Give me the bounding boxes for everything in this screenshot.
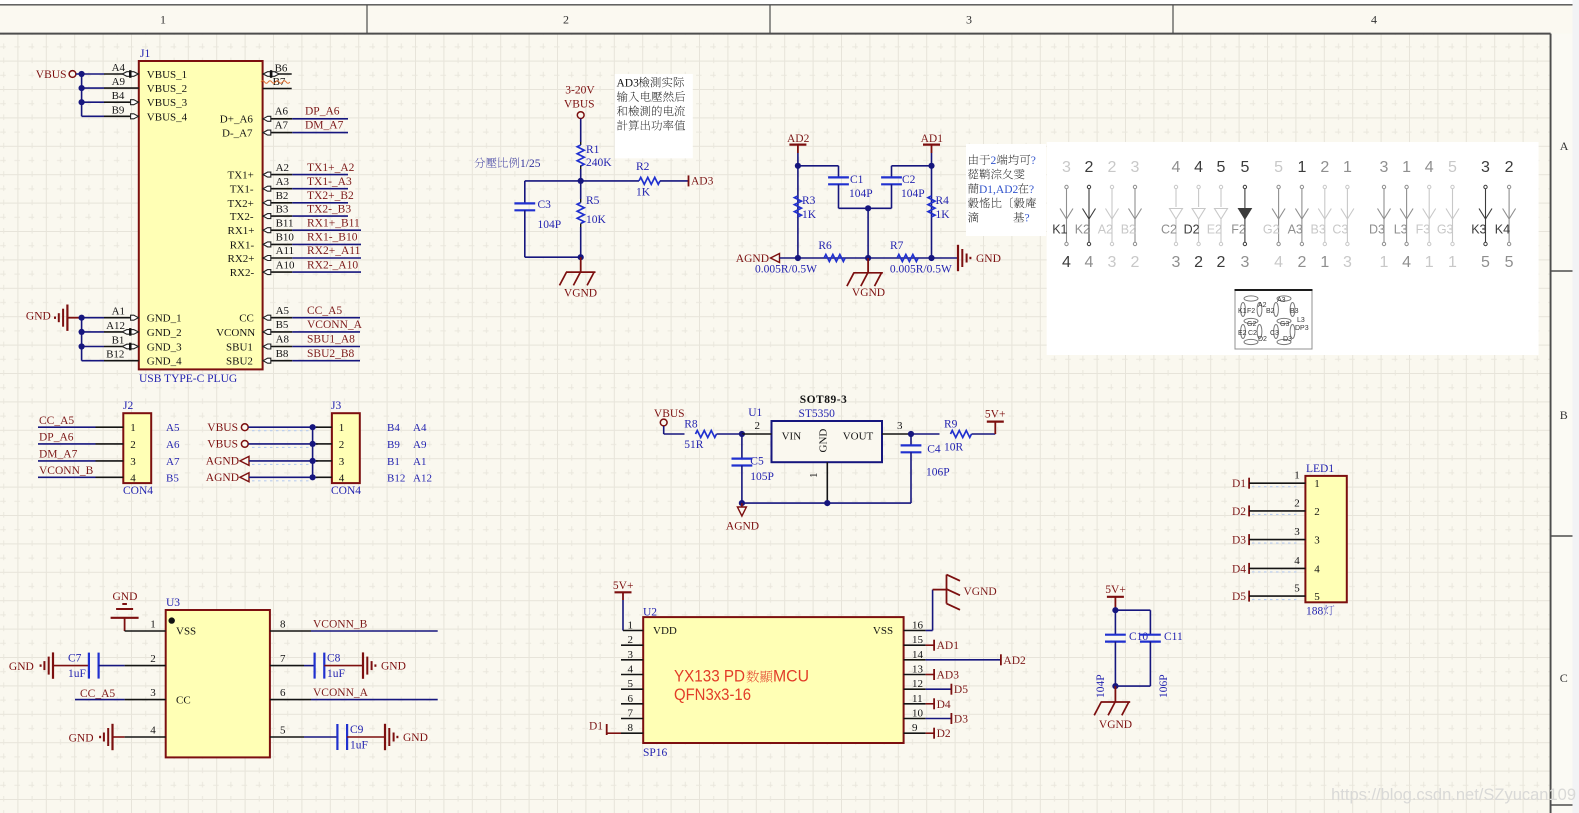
svg-text:A7: A7 xyxy=(275,119,289,131)
net label SBU1_A8 xyxy=(292,346,360,348)
svg-text:D5: D5 xyxy=(954,684,968,696)
wire VSS to VGND xyxy=(926,630,933,632)
svg-text:CC: CC xyxy=(239,313,254,325)
svg-text:R5: R5 xyxy=(586,195,600,207)
port D2 (U2) xyxy=(926,732,935,734)
svg-text:10R: 10R xyxy=(944,442,964,454)
pin J2.4 net VCONN_B xyxy=(38,476,96,478)
svg-text:1: 1 xyxy=(1320,254,1329,271)
svg-text:1: 1 xyxy=(160,13,166,27)
svg-text:C1: C1 xyxy=(850,174,864,186)
svg-text:9: 9 xyxy=(912,722,918,734)
svg-text:VGND: VGND xyxy=(852,287,885,299)
svg-text:C5: C5 xyxy=(750,456,764,468)
pin U3.4 xyxy=(125,736,166,738)
svg-text:3: 3 xyxy=(1131,159,1140,176)
svg-text:B2: B2 xyxy=(1266,308,1275,315)
svg-text:A11: A11 xyxy=(276,245,295,257)
svg-text:4: 4 xyxy=(339,472,345,484)
svg-text:2: 2 xyxy=(755,420,761,432)
svg-text:AD2: AD2 xyxy=(1003,655,1026,667)
svg-text:5: 5 xyxy=(1240,159,1249,176)
pin U3.1 xyxy=(125,630,166,632)
net label RX1-_B10 xyxy=(292,243,361,245)
svg-text:3: 3 xyxy=(1481,159,1490,176)
svg-text:B2: B2 xyxy=(1121,223,1136,237)
ground VGND (divider) xyxy=(580,257,582,272)
svg-text:VBUS_1: VBUS_1 xyxy=(147,69,187,81)
svg-text:CC: CC xyxy=(176,695,191,707)
net label VCONN_A xyxy=(292,331,360,333)
svg-text:AD3: AD3 xyxy=(691,176,714,188)
svg-text:3: 3 xyxy=(339,456,345,468)
svg-text:GND: GND xyxy=(26,311,51,323)
svg-text:D4: D4 xyxy=(1232,563,1246,575)
svg-text:1K: 1K xyxy=(636,187,651,199)
svg-text:K1: K1 xyxy=(1238,308,1247,315)
7-seg digit sketch xyxy=(1241,296,1262,345)
pin B7 (with error squiggle) xyxy=(263,88,292,90)
svg-text:K2: K2 xyxy=(1075,223,1090,237)
svg-text:106P: 106P xyxy=(1158,674,1170,698)
svg-text:1uF: 1uF xyxy=(327,668,345,680)
IC U3 body xyxy=(166,610,270,757)
top margin strip xyxy=(0,0,1579,5)
U3 pin1 dot marker xyxy=(169,617,175,623)
ruler dividers xyxy=(366,5,368,34)
svg-text:1K: 1K xyxy=(802,209,817,221)
svg-text:2: 2 xyxy=(1320,159,1329,176)
net label TX1+_A2 xyxy=(292,174,348,176)
svg-text:B11: B11 xyxy=(276,217,294,229)
svg-text:TX1-_A3: TX1-_A3 xyxy=(307,176,352,188)
svg-text:R2: R2 xyxy=(636,161,650,173)
resistor R9 xyxy=(951,431,972,438)
svg-text:D1,AD2: D1,AD2 xyxy=(979,184,1019,196)
net label TX2-_B3 xyxy=(292,215,348,217)
svg-text:A: A xyxy=(1560,139,1569,153)
svg-text:SBU2: SBU2 xyxy=(226,356,253,368)
svg-text:1K: 1K xyxy=(936,209,951,221)
svg-text:B2: B2 xyxy=(276,190,289,202)
svg-text:RX1-: RX1- xyxy=(230,239,255,251)
svg-text:GND_4: GND_4 xyxy=(147,356,182,368)
pin U2.14 xyxy=(904,659,926,661)
svg-text:3-20V: 3-20V xyxy=(565,85,595,97)
capacitor C3 xyxy=(524,181,526,204)
svg-text:11: 11 xyxy=(912,693,923,705)
svg-text:51R: 51R xyxy=(684,439,704,451)
svg-text:GND: GND xyxy=(403,732,428,744)
svg-text:D3: D3 xyxy=(954,714,968,726)
svg-text:G2: G2 xyxy=(1263,223,1280,237)
port D4 (U2) xyxy=(926,703,935,705)
svg-text:8: 8 xyxy=(628,722,634,734)
svg-text:7: 7 xyxy=(628,708,634,720)
white panel (faded LED array) xyxy=(1047,142,1539,355)
svg-text:3: 3 xyxy=(1062,159,1071,176)
svg-text:4: 4 xyxy=(1194,159,1203,176)
svg-text:7: 7 xyxy=(280,653,286,665)
svg-text:15: 15 xyxy=(912,634,924,646)
svg-text:1: 1 xyxy=(1297,159,1306,176)
net label CC_A5 xyxy=(292,317,360,319)
svg-text:1: 1 xyxy=(150,619,156,631)
svg-text:SBU2_B8: SBU2_B8 xyxy=(307,348,355,360)
ground VGND (caps) xyxy=(1114,686,1116,702)
svg-text:AD2: AD2 xyxy=(787,133,810,145)
svg-text:3: 3 xyxy=(1380,159,1389,176)
svg-text:C7: C7 xyxy=(68,653,82,665)
svg-text:DM_A7: DM_A7 xyxy=(39,449,78,461)
svg-text:?: ? xyxy=(1031,155,1036,167)
svg-text:SBU1: SBU1 xyxy=(226,342,253,354)
svg-text:A6: A6 xyxy=(166,439,180,451)
svg-text:1: 1 xyxy=(1314,478,1320,490)
svg-text:J1: J1 xyxy=(140,48,150,60)
svg-text:A12: A12 xyxy=(413,472,432,484)
svg-text:VBUS: VBUS xyxy=(36,69,67,81)
svg-text:G3: G3 xyxy=(1437,223,1454,237)
svg-text:10K: 10K xyxy=(586,214,607,226)
svg-text:3: 3 xyxy=(628,649,634,661)
junction xyxy=(310,441,316,447)
wire GND bus xyxy=(67,317,81,319)
svg-text:L3: L3 xyxy=(1297,317,1305,324)
svg-text:4: 4 xyxy=(1294,555,1300,567)
pin GND_3 J1.B1 xyxy=(82,346,104,348)
pin J2.1 net CC_A5 xyxy=(38,426,96,428)
svg-text:U3: U3 xyxy=(166,597,180,609)
svg-text:D1: D1 xyxy=(589,721,603,733)
svg-text:A5: A5 xyxy=(166,422,180,434)
svg-text:2: 2 xyxy=(1297,254,1306,271)
svg-text:VBUS: VBUS xyxy=(654,408,685,420)
svg-text:5: 5 xyxy=(1481,254,1490,271)
svg-text:104P: 104P xyxy=(1095,674,1107,698)
pin VBUS_3 J1.B4 xyxy=(82,101,104,103)
svg-text:VBUS_4: VBUS_4 xyxy=(147,111,188,123)
svg-text:GND: GND xyxy=(69,733,94,745)
svg-text:5V+: 5V+ xyxy=(613,580,634,592)
svg-text:2: 2 xyxy=(339,439,345,451)
svg-text:104P: 104P xyxy=(849,188,873,200)
pin U3.6 / net VCONN_A xyxy=(270,699,311,701)
svg-text:B9: B9 xyxy=(387,439,400,451)
regulator U1 body xyxy=(772,421,883,462)
svg-text:GND: GND xyxy=(9,661,34,673)
svg-text:VCONN_A: VCONN_A xyxy=(313,687,369,699)
svg-text:https://blog.csdn.net/SZyucan1: https://blog.csdn.net/SZyucan109 xyxy=(1331,786,1576,804)
svg-text:2: 2 xyxy=(150,653,156,665)
bottom rail xyxy=(780,257,959,259)
svg-text:YX133 PD: YX133 PD xyxy=(674,667,745,686)
svg-text:1: 1 xyxy=(1402,159,1411,176)
svg-text:106P: 106P xyxy=(926,466,950,478)
svg-text:SBU1_A8: SBU1_A8 xyxy=(307,334,355,346)
resistor R7 xyxy=(897,255,918,262)
svg-text:RX2+: RX2+ xyxy=(228,253,255,265)
svg-text:VGND: VGND xyxy=(564,288,597,300)
svg-text:A10: A10 xyxy=(276,259,295,271)
svg-text:D1: D1 xyxy=(1232,478,1246,490)
pin3 / C4 xyxy=(882,433,911,435)
svg-text:4: 4 xyxy=(1314,563,1320,575)
svg-text:B12: B12 xyxy=(106,349,124,361)
note box (AD3...) xyxy=(615,74,693,158)
wire to pin2 xyxy=(717,433,742,435)
svg-text:3: 3 xyxy=(150,687,156,699)
svg-text:240K: 240K xyxy=(586,157,612,169)
zone separators xyxy=(1551,270,1579,272)
right margin xyxy=(1552,34,1579,813)
right edge strip xyxy=(1573,0,1579,813)
svg-text:5: 5 xyxy=(1217,159,1226,176)
junction xyxy=(79,315,85,321)
svg-text:3: 3 xyxy=(1108,254,1117,271)
capacitor C11 xyxy=(1115,609,1150,611)
svg-text:C8: C8 xyxy=(327,653,341,665)
svg-text:F3: F3 xyxy=(1416,223,1431,237)
svg-text:SP16: SP16 xyxy=(643,747,668,759)
svg-text:CC_A5: CC_A5 xyxy=(80,688,115,700)
port AD3 (U2) xyxy=(926,674,935,676)
svg-text:DM_A7: DM_A7 xyxy=(305,119,344,131)
svg-text:F2: F2 xyxy=(1247,308,1255,315)
pin U2.5 xyxy=(621,688,643,690)
svg-text:RX1-_B10: RX1-_B10 xyxy=(307,232,358,244)
svg-text:VIN: VIN xyxy=(782,430,802,442)
junction xyxy=(1112,683,1118,689)
svg-text:VGND: VGND xyxy=(1099,719,1132,731)
svg-text:B10: B10 xyxy=(276,232,295,244)
svg-text:C3: C3 xyxy=(1270,330,1279,337)
svg-text:AGND: AGND xyxy=(206,456,239,468)
svg-text:G3: G3 xyxy=(1280,321,1289,328)
svg-text:2: 2 xyxy=(563,13,569,27)
svg-text:B5: B5 xyxy=(276,319,289,331)
svg-text:F2: F2 xyxy=(1231,223,1246,237)
7-seg tiny labels xyxy=(1238,297,1309,343)
svg-text:B4: B4 xyxy=(112,90,125,102)
pin GND_4 J1.B12 xyxy=(82,360,104,362)
port AD2 (U2) xyxy=(926,659,1001,661)
svg-text:C11: C11 xyxy=(1164,631,1183,643)
sheet border xyxy=(0,33,1551,35)
svg-text:CON4: CON4 xyxy=(331,485,361,497)
svg-text:5: 5 xyxy=(1274,159,1283,176)
svg-text:VBUS_2: VBUS_2 xyxy=(147,83,187,95)
svg-text:B6: B6 xyxy=(275,63,288,75)
svg-text:105P: 105P xyxy=(750,471,774,483)
svg-text:188: 188 xyxy=(1306,606,1324,618)
svg-text:?: ? xyxy=(1025,213,1030,225)
svg-text:VBUS_3: VBUS_3 xyxy=(147,97,188,109)
svg-text:R3: R3 xyxy=(802,195,816,207)
svg-text:GND_2: GND_2 xyxy=(147,327,182,339)
svg-text:?: ? xyxy=(1029,184,1034,196)
svg-text:3: 3 xyxy=(897,420,903,432)
MCU U2 body xyxy=(643,617,903,743)
svg-text:J2: J2 xyxy=(123,400,133,412)
svg-text:2: 2 xyxy=(1194,254,1203,271)
wire xyxy=(931,145,933,153)
svg-text:3: 3 xyxy=(1314,535,1320,547)
svg-text:2: 2 xyxy=(1505,159,1514,176)
pin U2.13 xyxy=(904,674,926,676)
svg-text:B5: B5 xyxy=(166,472,179,484)
resistor R8 xyxy=(696,431,717,438)
svg-text:J3: J3 xyxy=(331,400,341,412)
svg-text:6: 6 xyxy=(628,693,634,705)
svg-text:4: 4 xyxy=(130,472,136,484)
svg-text:C: C xyxy=(1560,671,1568,685)
capacitor C1 xyxy=(798,165,839,167)
pin GND_1 J1.A1 xyxy=(104,317,139,319)
svg-text:TX2-_B3: TX2-_B3 xyxy=(307,203,351,215)
connector J2 body xyxy=(123,413,151,483)
pin U2.9 xyxy=(904,732,926,734)
svg-text:4: 4 xyxy=(150,725,156,737)
wire xyxy=(580,119,582,142)
svg-text:DP_A6: DP_A6 xyxy=(39,432,74,444)
svg-text:3: 3 xyxy=(130,456,136,468)
svg-text:R8: R8 xyxy=(684,418,698,430)
port AD3 xyxy=(688,175,690,186)
svg-text:D4: D4 xyxy=(937,699,951,711)
pin U2.16 xyxy=(904,630,926,632)
U1 GND pin xyxy=(826,462,828,503)
junction xyxy=(79,329,85,335)
7-seg digit sketch xyxy=(1274,296,1295,345)
junction xyxy=(79,85,85,91)
pin U2.3 xyxy=(621,659,643,661)
svg-text:B: B xyxy=(1560,408,1568,422)
svg-text:TX2+: TX2+ xyxy=(228,198,254,210)
capacitor C5 xyxy=(741,434,743,459)
svg-text:K3: K3 xyxy=(1471,223,1486,237)
svg-text:GND: GND xyxy=(113,591,138,603)
svg-text:5V+: 5V+ xyxy=(985,409,1006,421)
junction xyxy=(79,99,85,105)
svg-text:C2: C2 xyxy=(902,174,916,186)
svg-text:AD3: AD3 xyxy=(937,670,960,682)
svg-text:A2: A2 xyxy=(276,162,289,174)
port D5 (U2) xyxy=(926,688,952,690)
svg-text:DP_A6: DP_A6 xyxy=(305,106,340,118)
resistor R5 xyxy=(577,203,584,224)
pin U2.8 xyxy=(621,732,643,734)
pin GND_2 J1.A12 xyxy=(82,331,104,333)
svg-text:A3: A3 xyxy=(1288,223,1303,237)
svg-text:D+_A6: D+_A6 xyxy=(220,114,254,126)
capacitor C10 xyxy=(1112,607,1118,613)
svg-text:TX1+: TX1+ xyxy=(228,170,254,182)
svg-text:5: 5 xyxy=(1448,159,1457,176)
svg-text:RX1+_B11: RX1+_B11 xyxy=(307,217,360,229)
svg-text:2: 2 xyxy=(1131,254,1140,271)
capacitor C2 xyxy=(892,165,932,167)
pin U3.2 xyxy=(125,665,166,667)
connector J3 body xyxy=(332,413,360,483)
pin U2.2 xyxy=(621,644,643,646)
svg-text:D3: D3 xyxy=(1232,535,1246,547)
7-segment reference box xyxy=(1235,290,1312,349)
note box (garbled) xyxy=(966,144,1046,236)
svg-text:D2: D2 xyxy=(1232,506,1246,518)
svg-text:A2: A2 xyxy=(1098,223,1113,237)
svg-text:VSS: VSS xyxy=(176,626,196,638)
pin U2.7 xyxy=(621,718,643,720)
svg-text:B1: B1 xyxy=(112,335,125,347)
label 分压比例1/25 xyxy=(474,157,485,167)
svg-text:D3: D3 xyxy=(1283,336,1292,343)
svg-text:8: 8 xyxy=(280,619,286,631)
pin J2.3 net DM_A7 xyxy=(38,460,96,462)
svg-text:5: 5 xyxy=(280,725,286,737)
net label RX1+_B11 xyxy=(292,229,361,231)
svg-text:A1: A1 xyxy=(112,306,125,318)
svg-text:A9: A9 xyxy=(413,439,427,451)
svg-text:1: 1 xyxy=(1448,254,1457,271)
svg-text:USB TYPE-C PLUG: USB TYPE-C PLUG xyxy=(139,373,237,385)
svg-text:A1: A1 xyxy=(413,456,426,468)
net label TX1-_A3 xyxy=(292,188,348,190)
pin U3.8 / net VCONN_B xyxy=(270,630,311,632)
resistor R6 xyxy=(824,255,845,262)
svg-text:5: 5 xyxy=(1505,254,1514,271)
svg-text:B3: B3 xyxy=(276,203,289,215)
svg-text:C3: C3 xyxy=(538,199,552,211)
svg-text:A8: A8 xyxy=(276,334,290,346)
power port 5V+ (U1) xyxy=(972,433,996,435)
svg-text:GND: GND xyxy=(818,429,830,453)
svg-text:1uF: 1uF xyxy=(68,668,86,680)
svg-text:D2: D2 xyxy=(1184,223,1200,237)
svg-text:TX2-: TX2- xyxy=(230,211,254,223)
wire to R9 xyxy=(911,433,940,435)
svg-text:1: 1 xyxy=(808,473,820,479)
svg-text:TX1-: TX1- xyxy=(230,184,254,196)
junction xyxy=(310,424,316,430)
svg-text:13: 13 xyxy=(912,664,924,676)
net label RX2+_A11 xyxy=(292,257,361,259)
svg-text:5V+: 5V+ xyxy=(1105,584,1126,596)
svg-text:4: 4 xyxy=(1371,13,1377,27)
wire xyxy=(663,426,665,434)
power port GND (sense) xyxy=(957,245,959,271)
svg-text:CON4: CON4 xyxy=(123,485,153,497)
wire xyxy=(797,145,799,153)
connector J1 body xyxy=(139,61,263,369)
svg-text:G2: G2 xyxy=(1247,321,1256,328)
port D3 (U2) xyxy=(926,718,952,720)
svg-text:0.005R/0.5W: 0.005R/0.5W xyxy=(755,264,817,276)
svg-text:VCONN_A: VCONN_A xyxy=(307,319,363,331)
svg-text:1: 1 xyxy=(1425,254,1434,271)
svg-text:C4: C4 xyxy=(927,444,941,456)
svg-text:L3: L3 xyxy=(1394,223,1408,237)
svg-text:104P: 104P xyxy=(538,219,562,231)
net label DP_A6 xyxy=(292,118,348,120)
net label DM_A7 xyxy=(292,132,348,134)
svg-text:R1: R1 xyxy=(586,144,600,156)
svg-text:3: 3 xyxy=(1172,254,1181,271)
pin U2.15 xyxy=(904,644,926,646)
pin U2.4 xyxy=(621,674,643,676)
svg-text:C3: C3 xyxy=(1332,223,1348,237)
svg-text:5: 5 xyxy=(1314,591,1320,603)
